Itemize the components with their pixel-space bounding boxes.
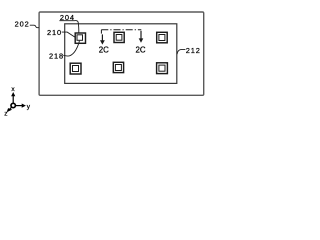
component square S2 inner [116,35,122,41]
section arrow left head [100,40,105,44]
outer housing rectangle 202 [39,12,204,95]
component square S1 inner [77,35,83,41]
svg-text:2C: 2C [136,46,146,55]
x-axis (up) [12,96,14,104]
y-axis (right) [16,105,23,107]
leader for 218 [63,41,79,56]
section arrow right shaft [140,31,142,39]
inner substrate rectangle 212 [65,24,177,84]
x-axis arrowhead [11,92,15,96]
component square S5 (row2 col2, outer) [113,62,123,72]
component square S6 (row2 col3, outer) [157,63,168,74]
svg-text:z: z [4,110,7,117]
component square S5 inner [115,65,121,71]
component square S6 inner [159,65,165,71]
svg-text:218: 218 [49,51,64,60]
leader for 210 [62,32,76,37]
svg-text:210: 210 [47,28,62,37]
leader for 204 (underline + hook down to S1 top) [59,21,78,33]
component square S4 inner [73,66,79,72]
svg-text:212: 212 [186,46,201,55]
component square S2 (row1 col2, outer) [114,32,124,42]
section arrow left shaft [101,34,103,40]
section line left elbow [100,30,102,34]
svg-text:202: 202 [15,20,30,29]
component square S4 (row2 col1, outer) [70,63,81,74]
leader for 212 [177,49,185,54]
svg-text:2C: 2C [99,46,109,55]
z-axis (down-left) [10,107,12,109]
section line 2C-2C (dash-dot) [101,29,141,31]
leader for 202 [30,25,39,28]
component square S1 (row1 col1, outer) [75,33,85,43]
coordinate axes origin [11,103,15,107]
y-axis arrowhead [22,104,26,108]
component square S3 (row1 col3, outer) [157,32,168,43]
component square S3 inner [159,35,165,41]
z-axis arrowhead [7,108,13,112]
section arrow right head [139,38,144,42]
